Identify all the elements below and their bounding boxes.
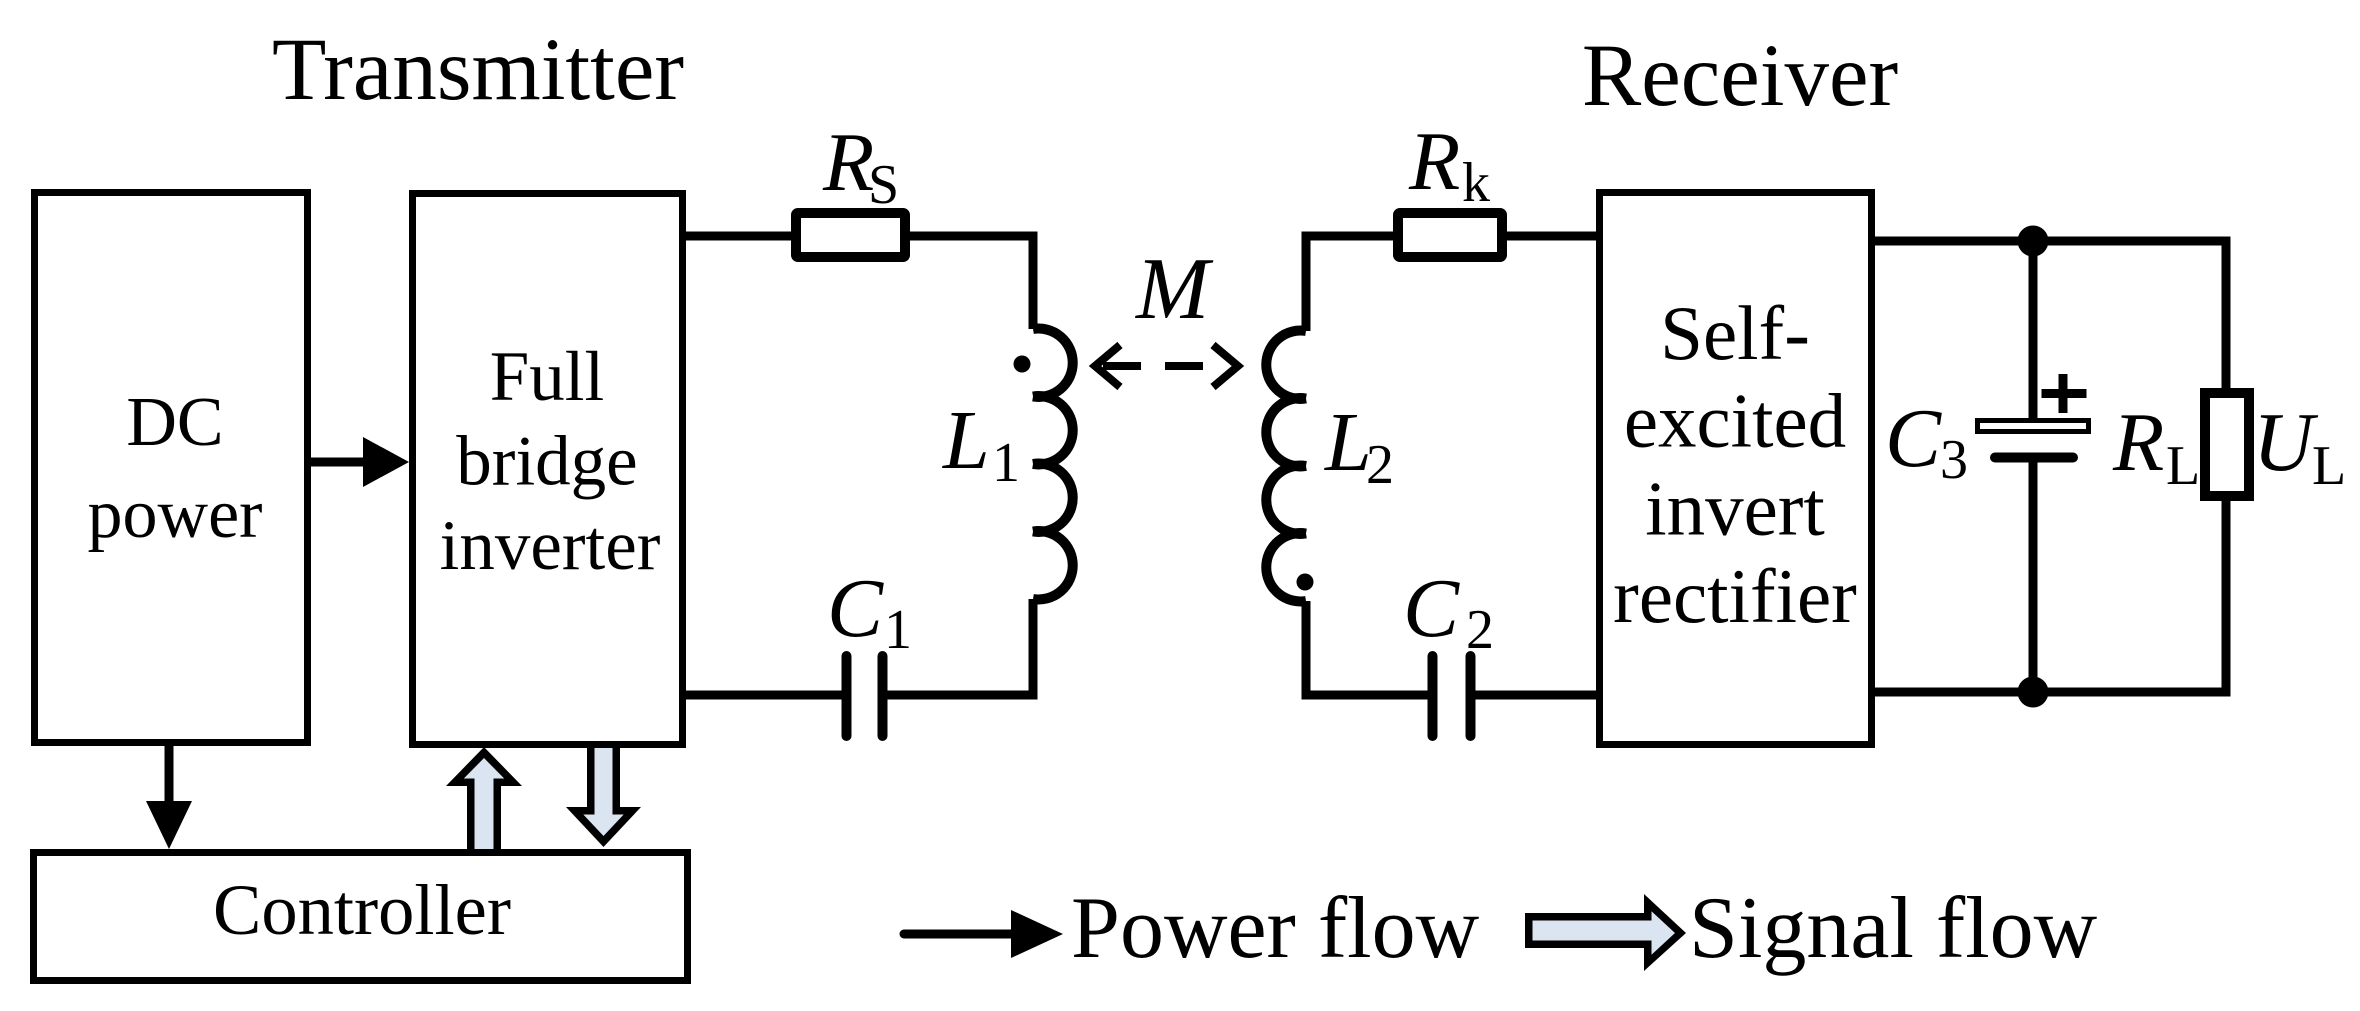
svg-text:L: L xyxy=(2166,435,2200,497)
svg-text:2: 2 xyxy=(1366,434,1394,496)
svg-text:M: M xyxy=(1134,241,1214,338)
svg-text:R: R xyxy=(822,116,874,209)
svg-text:Controller: Controller xyxy=(213,869,511,950)
svg-text:U: U xyxy=(2253,396,2319,489)
svg-text:bridge: bridge xyxy=(456,423,637,501)
svg-text:excited: excited xyxy=(1624,378,1846,464)
svg-text:L: L xyxy=(1324,396,1372,489)
svg-text:C: C xyxy=(1885,392,1942,485)
svg-text:rectifier: rectifier xyxy=(1613,553,1857,639)
svg-text:3: 3 xyxy=(1940,429,1968,491)
svg-text:Signal flow: Signal flow xyxy=(1689,880,2098,977)
svg-text:L: L xyxy=(2312,435,2346,497)
svg-text:Self-: Self- xyxy=(1660,290,1810,376)
svg-text:L: L xyxy=(942,394,990,487)
svg-text:S: S xyxy=(868,154,899,216)
svg-text:R: R xyxy=(2112,396,2164,489)
svg-text:DC: DC xyxy=(126,384,223,461)
svg-text:Power flow: Power flow xyxy=(1071,880,1480,977)
svg-text:inverter: inverter xyxy=(440,507,661,585)
svg-text:C: C xyxy=(1403,562,1460,655)
svg-text:C: C xyxy=(827,562,884,655)
svg-text:1: 1 xyxy=(992,432,1020,494)
svg-text:R: R xyxy=(1408,115,1460,208)
svg-text:Full: Full xyxy=(490,338,604,416)
svg-text:invert: invert xyxy=(1645,465,1825,551)
svg-text:Receiver: Receiver xyxy=(1582,27,1898,125)
svg-text:power: power xyxy=(88,476,263,553)
svg-text:Transmitter: Transmitter xyxy=(272,21,684,119)
svg-text:2: 2 xyxy=(1466,599,1494,661)
svg-text:1: 1 xyxy=(884,599,912,661)
svg-text:k: k xyxy=(1462,152,1490,214)
